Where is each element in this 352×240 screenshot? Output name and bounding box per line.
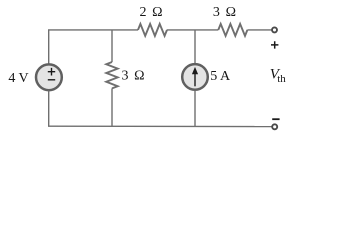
terminal bottom open circle [272, 124, 277, 129]
svg-text:5 A: 5 A [210, 69, 231, 84]
wire current-source branch upper [194, 30, 196, 64]
svg-text:3 Ω: 3 Ω [213, 5, 237, 20]
svg-text:th: th [277, 73, 286, 85]
svg-text:3 Ω: 3 Ω [121, 68, 145, 83]
wire top-middle horizontal [167, 29, 218, 31]
terminal top open circle [272, 27, 277, 32]
wire middle branch lower [111, 88, 113, 126]
svg-text:2 Ω: 2 Ω [139, 5, 163, 20]
wire middle branch upper [111, 30, 113, 62]
current source arrow shaft [194, 73, 196, 87]
resistor R2 3ohm zigzag [218, 24, 247, 36]
label minus terminal [272, 118, 279, 120]
current source I1 circle [182, 64, 208, 90]
wire top-right horizontal [247, 29, 271, 31]
wire left vertical upper [48, 30, 50, 64]
resistor R3 3ohm vertical zigzag [106, 62, 117, 88]
voltage source plus sign [48, 68, 55, 76]
wire left vertical lower [48, 91, 50, 127]
resistor R1 2ohm zigzag [138, 24, 167, 36]
label plus terminal [271, 41, 278, 48]
voltage source minus sign [48, 79, 55, 81]
voltage source V1 circle [36, 64, 62, 90]
svg-text:4 V: 4 V [8, 71, 28, 86]
wire bottom horizontal [48, 125, 272, 127]
wire current-source branch lower [194, 90, 196, 126]
current source arrow head [192, 67, 198, 74]
wire top-left horizontal [48, 29, 138, 31]
